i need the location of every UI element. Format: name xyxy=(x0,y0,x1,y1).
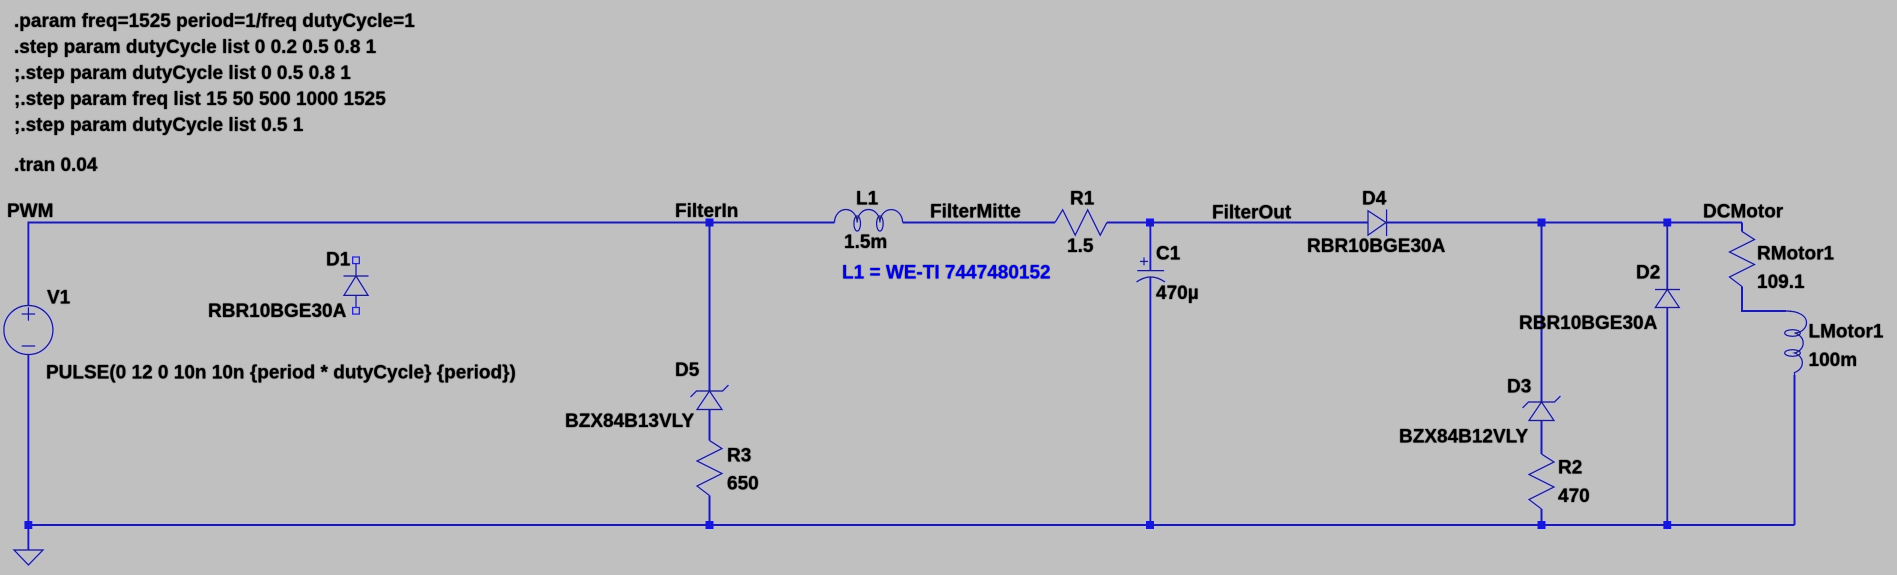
wire top rail: L1 to R1 xyxy=(903,222,1055,224)
svg-text:L1: L1 xyxy=(856,189,879,210)
junction D3 top xyxy=(1538,219,1546,227)
diode D2 xyxy=(1655,290,1680,308)
svg-text:RMotor1: RMotor1 xyxy=(1757,244,1834,265)
wire D3 to R2 xyxy=(1541,421,1543,455)
inductor L1 xyxy=(835,210,903,232)
zener diode D3 xyxy=(1523,396,1561,421)
junction C1 bottom xyxy=(1146,521,1154,529)
wire R2 to bottom rail xyxy=(1541,509,1543,525)
svg-text:650: 650 xyxy=(727,474,759,495)
wire top rail from PWM corner through FilterIn to L1 xyxy=(28,223,834,306)
svg-text:100m: 100m xyxy=(1809,350,1858,371)
svg-text:FilterMitte: FilterMitte xyxy=(930,202,1021,223)
junction D2 bottom xyxy=(1663,521,1671,529)
junction FilterIn xyxy=(706,219,714,227)
capacitor C1 xyxy=(1137,223,1166,283)
svg-text:109.1: 109.1 xyxy=(1757,272,1805,293)
resistor R3 xyxy=(697,441,722,496)
svg-text:R1: R1 xyxy=(1070,189,1095,210)
svg-text:LMotor1: LMotor1 xyxy=(1809,322,1884,343)
junction D2 top xyxy=(1663,219,1671,227)
svg-text:;.step param dutyCycle list 0.: ;.step param dutyCycle list 0.5 1 xyxy=(14,115,304,136)
resistor RMotor1 xyxy=(1730,232,1755,287)
diode D1 (floating) xyxy=(344,257,369,314)
svg-text:RBR10BGE30A: RBR10BGE30A xyxy=(1307,236,1446,257)
svg-text:.tran 0.04: .tran 0.04 xyxy=(14,155,98,176)
inductor LMotor1 xyxy=(1785,311,1807,375)
wire LMotor1 to bottom rail xyxy=(1794,375,1796,525)
wire C1 to bottom rail xyxy=(1149,278,1151,526)
svg-text:DCMotor: DCMotor xyxy=(1703,202,1784,223)
diode D4 xyxy=(1368,209,1387,236)
svg-text:BZX84B13VLY: BZX84B13VLY xyxy=(565,411,695,432)
spice directive .param/.step block xyxy=(14,11,415,136)
svg-text:FilterOut: FilterOut xyxy=(1212,203,1292,224)
junction bottom-left xyxy=(24,521,32,529)
svg-text:RBR10BGE30A: RBR10BGE30A xyxy=(1519,313,1658,334)
wire D2 to bottom rail xyxy=(1666,308,1668,526)
wire V1 bottom to ground rail xyxy=(27,355,29,526)
wire bottom ground rail xyxy=(28,524,1794,526)
wire FilterIn down to D5 xyxy=(709,223,711,392)
ground symbol xyxy=(14,525,43,565)
svg-text:PULSE(0 12 0 10n 10n {period *: PULSE(0 12 0 10n 10n {period * dutyCycle… xyxy=(46,363,516,384)
svg-text:V1: V1 xyxy=(47,288,71,309)
svg-text:C1: C1 xyxy=(1156,244,1181,265)
junction R3 bottom xyxy=(706,521,714,529)
svg-text:;.step param freq list 15 50 5: ;.step param freq list 15 50 500 1000 15… xyxy=(14,89,386,110)
wire D3 branch down xyxy=(1541,223,1543,403)
svg-text:1.5m: 1.5m xyxy=(844,232,887,253)
svg-text:470: 470 xyxy=(1558,486,1590,507)
wire DCMotor corner down to RMotor1 xyxy=(1741,223,1743,232)
zener diode D5 xyxy=(691,385,729,410)
junction FilterOut-C1 xyxy=(1146,219,1154,227)
resistor R1 xyxy=(1055,210,1107,235)
svg-text:.step param dutyCycle list 0 0: .step param dutyCycle list 0 0.2 0.5 0.8… xyxy=(14,37,377,58)
svg-text:470µ: 470µ xyxy=(1156,283,1199,304)
svg-text:R3: R3 xyxy=(727,446,751,467)
svg-text:R2: R2 xyxy=(1558,458,1582,479)
wire R3 to bottom rail xyxy=(709,496,711,526)
resistor R2 xyxy=(1529,454,1554,509)
svg-text:D5: D5 xyxy=(675,360,700,381)
svg-text:BZX84B12VLY: BZX84B12VLY xyxy=(1399,427,1529,448)
svg-text:D4: D4 xyxy=(1362,189,1387,210)
wire RMotor1 to LMotor1 xyxy=(1742,287,1786,312)
wire D2 branch down xyxy=(1666,223,1668,290)
svg-text:.param freq=1525 period=1/freq: .param freq=1525 period=1/freq dutyCycle… xyxy=(14,11,415,32)
svg-text:L1 = WE-TI 7447480152: L1 = WE-TI 7447480152 xyxy=(842,263,1051,284)
svg-text:D3: D3 xyxy=(1507,377,1531,398)
junction R2 bottom xyxy=(1538,521,1546,529)
wire top rail: R1 to D4 xyxy=(1107,222,1368,224)
svg-text:1.5: 1.5 xyxy=(1067,236,1094,257)
svg-text:FilterIn: FilterIn xyxy=(675,201,738,222)
svg-text:RBR10BGE30A: RBR10BGE30A xyxy=(208,301,347,322)
wire top rail: D4 to DCMotor corner xyxy=(1387,222,1742,224)
voltage source V1 xyxy=(4,306,53,355)
svg-text:D2: D2 xyxy=(1636,263,1660,284)
wire D5 to R3 xyxy=(709,410,711,441)
svg-text:;.step param dutyCycle list 0: ;.step param dutyCycle list 0 0.5 0.8 1 xyxy=(14,63,351,84)
svg-text:D1: D1 xyxy=(326,250,351,271)
svg-text:PWM: PWM xyxy=(7,201,53,222)
